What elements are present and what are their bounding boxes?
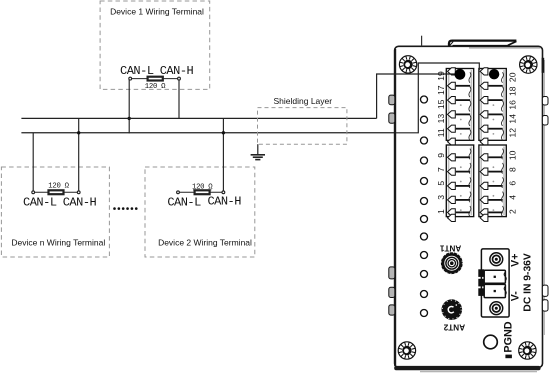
svg-text:Shielding Layer: Shielding Layer: [273, 96, 332, 106]
label CAN-L (device 1): [120, 64, 154, 78]
wire: bottom bus riser to pin 20 feed: [396, 63, 479, 133]
node: terminal circle CAN-H device n: [77, 191, 80, 194]
junction dot on bottom bus at device 2 CAN-H crossing: [222, 131, 225, 134]
DC power terminal block J1: [478, 249, 509, 317]
svg-text:10: 10: [507, 150, 517, 160]
svg-text:18: 18: [507, 86, 517, 96]
svg-text:15: 15: [436, 99, 446, 109]
svg-text:PGND: PGND: [503, 321, 515, 352]
svg-text:5: 5: [436, 181, 446, 186]
svg-text:11: 11: [436, 128, 446, 137]
node: terminal circle CAN-H device 1: [178, 77, 181, 80]
svg-text:V+: V+: [510, 254, 522, 267]
svg-text:12: 12: [507, 128, 517, 138]
antenna stub line on device top: [421, 36, 423, 47]
screw bottom-left: [398, 342, 415, 359]
wire: device 1 CAN-H drop to top bus: [178, 80, 180, 119]
svg-text:ANT1: ANT1: [439, 244, 461, 253]
wire: top bus line (CAN bus): [21, 117, 376, 119]
svg-text:Device 2 Wiring Terminal: Device 2 Wiring Terminal: [158, 237, 252, 247]
svg-text:2: 2: [507, 209, 517, 214]
ANT2 SMA connector (capped): [442, 299, 463, 320]
svg-text:Device 1 Wiring Terminal: Device 1 Wiring Terminal: [110, 6, 204, 16]
PGND hole: [484, 335, 498, 349]
ANT1 SMA connector: [441, 253, 462, 274]
label CAN-H (device 1): [160, 64, 194, 78]
svg-text:9: 9: [436, 153, 446, 158]
terminal block column odd pins (1-19): [446, 68, 473, 222]
Device n Wiring Terminal box: [1, 167, 109, 257]
ground symbol: [251, 144, 265, 159]
node: terminal circle CAN-L device 2: [177, 191, 180, 194]
label ANT2: [443, 322, 465, 331]
resistor R1 120 ohm (device 1): [130, 77, 179, 81]
LED indicator holes: [421, 96, 428, 317]
svg-text:20: 20: [507, 72, 517, 82]
screw bottom-right: [519, 342, 536, 359]
pin 19 wire connection dot: [455, 69, 466, 80]
svg-text:CAN-H: CAN-H: [207, 195, 241, 209]
label CAN-L (device n): [23, 195, 57, 209]
label V-: [510, 291, 522, 301]
svg-text:14: 14: [507, 114, 517, 124]
svg-text:1: 1: [436, 209, 446, 214]
value label 120 ohm (device 1): [145, 83, 166, 91]
svg-text:3: 3: [436, 195, 446, 200]
svg-text:7: 7: [436, 167, 446, 172]
small black tab near bottom-right screw: [505, 355, 512, 359]
svg-text:19: 19: [436, 71, 446, 81]
wire: device 2 CAN-H riser to top bus: [222, 118, 224, 190]
left edge mounting tabs: [389, 95, 395, 315]
svg-text:V-: V-: [510, 291, 522, 301]
wire: device n CAN-L riser to bottom bus: [32, 133, 34, 191]
svg-text:Device n Wiring Terminal: Device n Wiring Terminal: [11, 237, 105, 247]
wire: device 1 CAN-L drop to bottom bus: [128, 80, 130, 133]
Shielding Layer dashed box: [258, 108, 347, 145]
label: Device n Wiring Terminal: [11, 237, 105, 247]
svg-text:ANT2: ANT2: [443, 322, 465, 331]
pin 20 wire connection dot: [489, 69, 499, 79]
node: terminal circle CAN-L device n: [32, 191, 35, 194]
screw top-right: [520, 56, 537, 73]
svg-text:CAN-H: CAN-H: [160, 64, 194, 78]
svg-text:16: 16: [507, 100, 517, 110]
Device 2 Wiring Terminal box: [145, 167, 255, 257]
device panel body (module U1): [394, 46, 544, 371]
wire: top bus to device pin 19: [377, 74, 460, 118]
Device 1 Wiring Terminal box: [100, 1, 210, 89]
value label 120 ohm (device 2): [192, 184, 213, 192]
DIN rail clip on device top: [449, 41, 516, 47]
label: Shielding Layer: [273, 96, 332, 106]
node: terminal circle CAN-H device 2: [222, 191, 225, 194]
pin numbers even column: [507, 72, 517, 214]
label: Device 1 Wiring Terminal: [110, 6, 204, 16]
screw top-left: [399, 56, 416, 73]
svg-text:17: 17: [436, 85, 446, 95]
pin numbers odd column: [436, 71, 446, 214]
terminal block column even pins (2-20): [479, 68, 506, 222]
label PGND: [503, 321, 515, 352]
label V+: [510, 254, 522, 267]
svg-text:CAN-L: CAN-L: [23, 195, 57, 209]
resistor Rn 120 ohm (device n): [33, 190, 78, 194]
ellipsis dots between device boxes: [113, 207, 137, 210]
svg-text:13: 13: [436, 114, 446, 124]
wire: bottom bus line (CAN bus): [21, 132, 396, 134]
label DC IN 9-36V: [522, 253, 533, 311]
junction dot on top bus at device1 CAN-L crossing: [128, 117, 131, 120]
wire: device n CAN-H riser to top bus: [78, 118, 80, 190]
svg-text:CAN-L: CAN-L: [167, 195, 201, 209]
label: Device 2 Wiring Terminal: [158, 237, 252, 247]
label CAN-L (device 2): [167, 195, 201, 209]
junction dot on bottom bus at device n CAN-H crossing: [77, 131, 80, 134]
svg-text:DC IN 9-36V: DC IN 9-36V: [522, 253, 533, 311]
svg-text:8: 8: [507, 167, 517, 172]
label CAN-H (device 2): [207, 195, 241, 209]
right edge mounting tabs: [542, 97, 548, 312]
svg-text:6: 6: [507, 181, 517, 186]
node: terminal circle CAN-L device 1: [129, 77, 132, 80]
svg-text:120 Ω: 120 Ω: [145, 83, 166, 91]
value label 120 ohm (device n): [48, 182, 69, 190]
svg-text:120 Ω: 120 Ω: [48, 182, 69, 190]
svg-text:CAN-H: CAN-H: [63, 195, 97, 209]
svg-text:4: 4: [507, 195, 517, 200]
resistor R2 120 ohm (device 2): [178, 190, 223, 194]
label ANT1: [439, 244, 461, 253]
label CAN-H (device n): [63, 195, 97, 209]
